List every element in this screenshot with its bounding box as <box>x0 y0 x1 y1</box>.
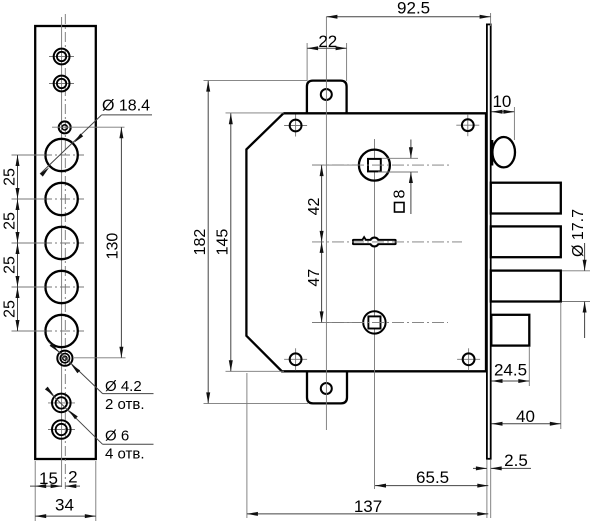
auxiliary bolt bottom <box>491 315 529 346</box>
svg-text:Ø 4.2: Ø 4.2 <box>105 378 142 395</box>
spindle axis vertical centerline <box>374 139 376 489</box>
svg-text:10: 10 <box>492 92 511 111</box>
spindle 1 circle <box>359 150 390 181</box>
dimension 22 <box>307 47 347 49</box>
svg-text:34: 34 <box>55 495 74 514</box>
svg-text:40: 40 <box>516 407 535 426</box>
dimension 34 <box>35 515 96 517</box>
faceplate plate axis centerline <box>64 14 66 489</box>
svg-text:Ø 18.4: Ø 18.4 <box>102 98 150 115</box>
faceplate extension lines below <box>486 460 488 518</box>
cylinder hole O18.4 #1 <box>42 154 84 156</box>
bottom tab hole <box>321 383 332 394</box>
svg-text:15: 15 <box>39 469 58 488</box>
deadbolt 3 <box>491 271 561 302</box>
svg-text:130: 130 <box>104 233 121 260</box>
svg-text:2.5: 2.5 <box>504 451 528 470</box>
screw post crosshair top-left <box>284 125 307 127</box>
svg-text:22: 22 <box>318 32 337 51</box>
faceplate front view: plate outline <box>35 26 96 459</box>
dimension square-8 <box>410 140 412 159</box>
svg-text:25: 25 <box>1 212 18 230</box>
dimension 182 extension lines <box>204 80 308 82</box>
dimension O17.7 <box>584 243 586 271</box>
svg-text:25: 25 <box>1 300 18 318</box>
spindle 1 square hole <box>368 159 381 172</box>
cylinder hole O18.4 #5 <box>42 330 84 332</box>
dimension 25 x4 chained: extension ticks <box>12 154 46 156</box>
dimension square-8 extension lines <box>382 157 418 159</box>
dimension 40 <box>492 423 561 425</box>
callout O4.2 leader <box>49 342 103 393</box>
callout O6 leader <box>46 389 103 445</box>
screw post crosshair bottom-left <box>284 358 307 360</box>
svg-text:145: 145 <box>215 229 232 256</box>
dimension 24.5 <box>492 380 530 382</box>
dimension 47 <box>320 242 324 253</box>
cylinder hole O18.4 #3 <box>42 242 84 244</box>
dimension 145 extension lines <box>226 112 285 114</box>
top tab hole <box>321 89 332 100</box>
svg-text:42: 42 <box>306 198 323 216</box>
svg-text:2 отв.: 2 отв. <box>105 396 145 413</box>
dimension 24.5 extension line <box>528 347 530 386</box>
small hole top (O4.2) <box>59 121 71 133</box>
svg-text:92.5: 92.5 <box>397 0 430 17</box>
screw post crosshair top-right <box>456 124 479 126</box>
lock body outline <box>246 113 486 371</box>
dimension 42 <box>321 165 323 322</box>
dimension 182 <box>207 81 209 404</box>
dimension 25 chain line <box>17 155 19 331</box>
svg-text:Ø 17.7: Ø 17.7 <box>570 209 587 257</box>
dimension 10 <box>492 111 515 113</box>
dimension 15-2 extension lines <box>34 461 36 521</box>
screw hole top 2 (O6) <box>49 83 74 85</box>
spindle 1 centerline horizontal <box>312 164 452 166</box>
dimension O17.7 extension lines <box>562 270 590 272</box>
spindle 2 square hole <box>368 316 380 328</box>
callout O18.4 leader <box>40 115 102 174</box>
top mounting tab <box>307 81 347 115</box>
svg-text:24.5: 24.5 <box>494 361 527 380</box>
dimension 145 <box>230 113 232 371</box>
dimension 40 extension line <box>560 303 562 429</box>
deadbolt 1 <box>491 183 561 214</box>
dimension 130 line <box>120 127 122 358</box>
svg-text:182: 182 <box>192 229 209 256</box>
dimension 92.5 <box>326 16 490 18</box>
dimension 42-47 ticks <box>312 164 360 166</box>
dimension 15 <box>30 485 62 487</box>
bottom mounting tab <box>307 370 347 403</box>
svg-text:137: 137 <box>354 497 382 516</box>
svg-text:47: 47 <box>306 269 323 287</box>
svg-text:25: 25 <box>1 256 18 274</box>
svg-text:Ø 6: Ø 6 <box>105 427 129 444</box>
dimension 130 extension lines <box>52 126 125 128</box>
cylinder hole O18.4 #4 <box>42 286 84 288</box>
faceplate edge view strip <box>487 24 491 458</box>
latch bolt <box>492 137 515 167</box>
dimension 92.5 extension: strip top <box>490 13 492 26</box>
dimension 65.5 <box>375 485 488 487</box>
svg-text:65.5: 65.5 <box>416 468 449 487</box>
svg-text:4 отв.: 4 отв. <box>105 446 145 463</box>
screw hole bottom 1 (O6) <box>48 402 75 404</box>
svg-text:8: 8 <box>392 189 409 198</box>
spindle 2 centerline horizontal <box>312 321 448 323</box>
screw post crosshair bottom-right <box>457 358 480 360</box>
keyhole cutout <box>352 239 397 245</box>
dimension 2.5 <box>473 467 487 469</box>
small hole bottom (O4.2) <box>57 351 72 366</box>
body left edge extension line <box>246 373 248 518</box>
tab axis vertical centerline <box>325 17 327 430</box>
screw hole bottom 2 (O6) <box>48 429 75 431</box>
svg-text:2: 2 <box>68 468 77 487</box>
dimension 137 <box>247 513 488 515</box>
dimension 2 <box>65 485 80 487</box>
cylinder hole O18.4 #2 <box>42 198 84 200</box>
faceplate hole axis centerline <box>61 17 63 487</box>
deadbolt 2 <box>491 226 561 257</box>
keyhole centerline horizontal <box>312 241 462 243</box>
dimension 10 extension line <box>513 107 515 140</box>
spindle 2 circle <box>363 311 385 333</box>
screw hole top 1 (O6) <box>49 56 74 58</box>
svg-text:25: 25 <box>1 168 18 186</box>
dimension 22 extension lines <box>306 43 308 81</box>
